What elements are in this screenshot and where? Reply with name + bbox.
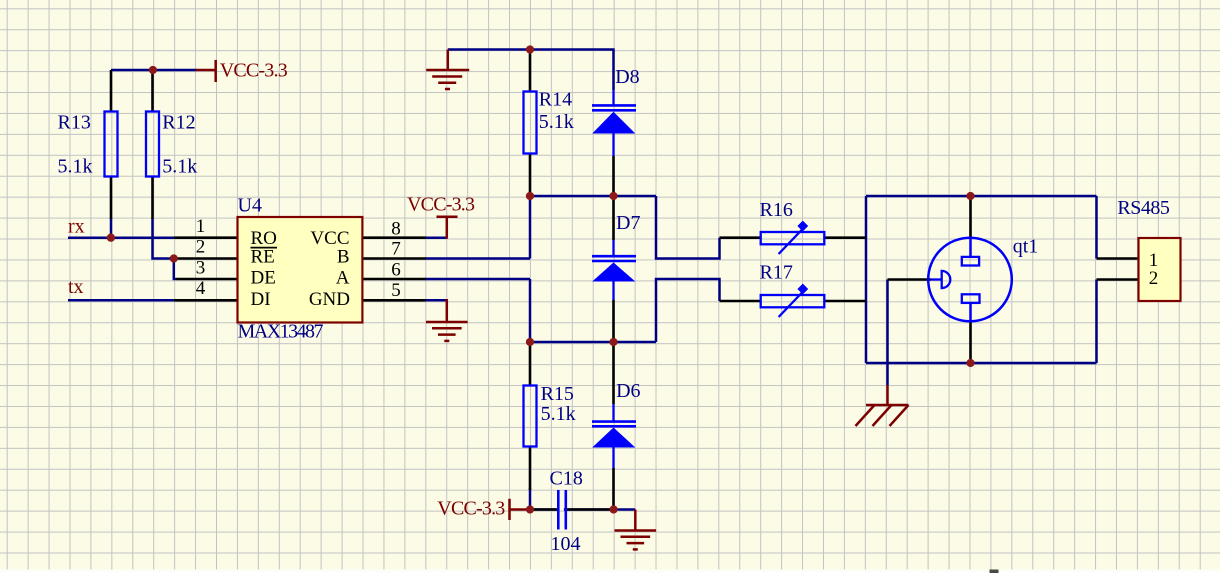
wire qt1 loop right upper	[1095, 196, 1098, 259]
svg-text:B: B	[337, 247, 350, 268]
pin R16 right	[824, 236, 866, 239]
svg-text:R13: R13	[58, 111, 91, 133]
junction qt1 bottom	[966, 359, 974, 367]
svg-text:2: 2	[1149, 268, 1159, 289]
pin R15 top	[529, 342, 532, 386]
wire A elbow	[656, 279, 720, 342]
junction mid bus D7	[609, 192, 617, 200]
wire R13 bottom to rx	[110, 218, 113, 238]
power VCC-3.3 at C18	[510, 499, 531, 520]
svg-text:VCC-3.3: VCC-3.3	[407, 193, 475, 215]
wire qt1 loop bottom	[866, 362, 1097, 365]
potentiometer R17	[761, 284, 825, 317]
svg-text:C18: C18	[550, 467, 583, 489]
svg-text:4: 4	[196, 278, 206, 299]
diode D8	[592, 90, 636, 156]
svg-text:6: 6	[391, 260, 401, 281]
svg-text:5.1k: 5.1k	[162, 156, 197, 178]
wire VCC top rail	[111, 69, 197, 72]
svg-text:DI: DI	[251, 289, 271, 310]
svg-text:DE: DE	[251, 267, 276, 288]
pin U4.1	[174, 236, 238, 239]
pin U4.8	[362, 236, 426, 239]
wire top bus gnd to D8	[448, 50, 614, 91]
diode D7	[592, 240, 636, 300]
pin R16 left	[720, 236, 762, 239]
wire R15 bottom	[529, 488, 532, 510]
wire qt1 loop top	[866, 195, 1097, 198]
capacitor C18 pins	[531, 508, 612, 511]
resistor R13	[105, 112, 118, 177]
wire B column vertical	[529, 196, 532, 259]
pin R15 bottom	[529, 447, 532, 491]
svg-text:VCC-3.3: VCC-3.3	[220, 60, 288, 82]
power VCC-3.3 at U4 pin8	[437, 217, 458, 239]
pin R17 left	[720, 300, 762, 303]
junction top bus R14	[526, 45, 534, 53]
pin U4.5	[362, 299, 426, 302]
pin D8 bottom	[612, 156, 615, 196]
pin R13 bottom	[110, 177, 113, 220]
wire qt1 loop left	[865, 196, 868, 363]
pin R12 bottom	[151, 177, 154, 220]
wire qt1 shield to chassis gnd	[886, 280, 889, 386]
junction R12/VCC rail	[149, 66, 157, 74]
svg-text:1: 1	[196, 216, 206, 237]
junction C18 left	[526, 505, 534, 513]
svg-text:5.1k: 5.1k	[58, 156, 93, 178]
svg-text:D7: D7	[616, 212, 640, 234]
pin D7 bottom	[612, 300, 615, 342]
pin U4.2	[174, 257, 238, 260]
svg-text:5: 5	[391, 280, 401, 301]
junction mid bus R14	[526, 192, 534, 200]
wire C18 gnd stub	[614, 508, 636, 511]
svg-text:5.1k: 5.1k	[541, 403, 576, 425]
svg-text:104: 104	[551, 533, 581, 555]
wire pin5 to GND symbol	[425, 299, 447, 302]
junction C18 right	[609, 505, 617, 513]
svg-text:R15: R15	[541, 383, 574, 405]
wire A column vertical	[529, 279, 532, 342]
connector qt1	[928, 238, 1012, 322]
svg-text:RE: RE	[251, 247, 275, 268]
svg-text:D8: D8	[615, 66, 639, 88]
pin U4.6	[362, 278, 426, 281]
junction rx/R13	[107, 234, 115, 242]
svg-text:A: A	[336, 267, 350, 288]
junction qt1 top	[966, 192, 974, 200]
pin qt1 top	[969, 196, 972, 238]
connector RS485 body	[1139, 238, 1181, 301]
pin R12 top	[151, 70, 154, 112]
svg-text:RS485: RS485	[1117, 197, 1170, 219]
diode D6	[592, 404, 636, 468]
ground at C18	[615, 510, 657, 550]
wire R12 bottom to RE	[153, 219, 175, 259]
wire pin8 to VCC symbol	[425, 236, 447, 239]
pin D6 bottom	[612, 468, 615, 510]
resistor R15	[524, 386, 537, 447]
pin D6 top	[612, 342, 615, 404]
junction bottom bus D6	[609, 338, 617, 346]
wire C18 left	[530, 508, 557, 511]
IC U4 body	[238, 217, 363, 323]
svg-text:R17: R17	[760, 261, 793, 283]
wire tx net	[68, 299, 175, 302]
pin RS485.2	[1097, 278, 1139, 281]
svg-text:R14: R14	[539, 89, 572, 111]
power VCC-3.3 top	[196, 60, 216, 82]
overline of RE	[251, 247, 278, 249]
svg-text:R16: R16	[760, 199, 793, 221]
wire rx net	[68, 236, 175, 239]
resistor R12	[146, 112, 159, 177]
pin U4.3	[176, 278, 238, 281]
pin qt1 bottom	[969, 322, 972, 364]
svg-text:GND: GND	[309, 289, 350, 310]
pin RS485.1	[1097, 257, 1139, 260]
bottom scrollbar strip	[0, 570, 1220, 573]
pin R14 top	[529, 50, 532, 92]
pin U4.4	[174, 299, 238, 302]
wire B elbow	[656, 196, 720, 259]
pin R13 top	[110, 70, 113, 112]
pin U4.7	[362, 257, 426, 260]
svg-text:qt1: qt1	[1013, 235, 1039, 257]
resistor R14	[524, 92, 537, 154]
svg-text:D6: D6	[616, 380, 640, 402]
svg-text:VCC-3.3: VCC-3.3	[437, 498, 505, 520]
svg-text:3: 3	[196, 257, 206, 278]
pin R17 right	[824, 300, 866, 303]
wire A net pin6 to column	[425, 278, 530, 281]
wire bottom bus	[530, 341, 656, 344]
svg-text:rx: rx	[68, 216, 85, 238]
svg-text:5.1k: 5.1k	[539, 111, 574, 133]
pin qt1 left	[888, 278, 932, 281]
capacitor C18	[558, 490, 566, 530]
wire qt1 loop right lower	[1095, 280, 1098, 364]
wire C18 right	[564, 508, 614, 511]
svg-text:R12: R12	[162, 111, 195, 133]
ground at U4 pin5	[426, 299, 468, 341]
wire mid bus	[530, 195, 656, 198]
svg-text:7: 7	[391, 239, 401, 260]
svg-text:tx: tx	[68, 276, 84, 298]
pin D7 top	[612, 196, 615, 240]
svg-text:2: 2	[196, 236, 206, 257]
svg-text:U4: U4	[238, 195, 262, 217]
junction bottom bus R15	[526, 338, 534, 346]
wire RE junction down to DE pin	[174, 259, 176, 280]
svg-text:MAX13487: MAX13487	[238, 321, 324, 343]
wire B net pin7 to column	[425, 257, 530, 260]
junction RE node	[170, 254, 178, 262]
chassis ground below qt1	[856, 385, 909, 426]
potentiometer R16	[761, 221, 825, 254]
pin R14 bottom	[529, 154, 532, 197]
ground at top bus	[426, 50, 469, 90]
svg-text:8: 8	[391, 219, 401, 240]
